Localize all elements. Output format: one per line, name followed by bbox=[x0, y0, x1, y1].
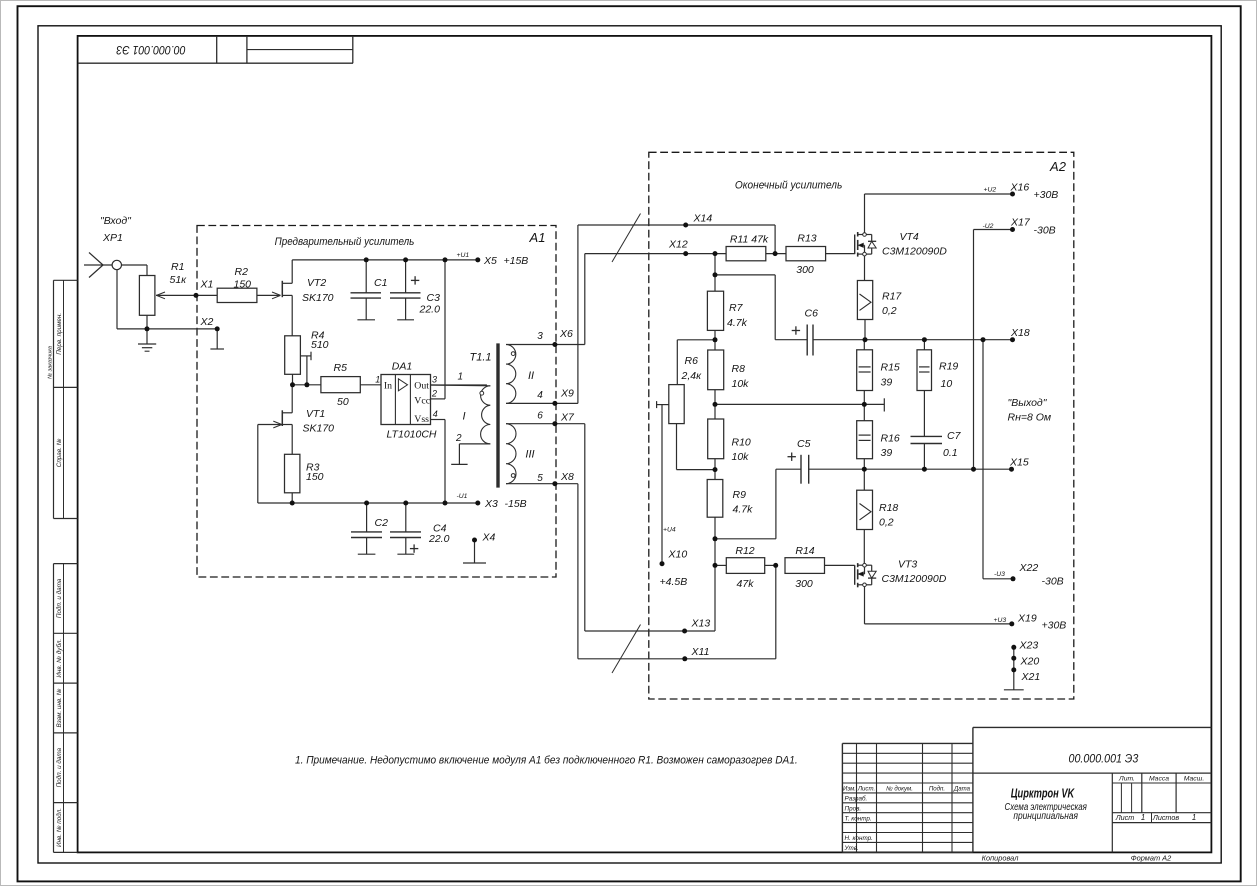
svg-text:+U3: +U3 bbox=[994, 617, 1007, 624]
svg-text:22.0: 22.0 bbox=[419, 304, 441, 316]
svg-text:II: II bbox=[528, 370, 534, 382]
svg-text:DA1: DA1 bbox=[392, 361, 412, 373]
svg-text:Vcc: Vcc bbox=[414, 396, 430, 407]
svg-text:510: 510 bbox=[311, 339, 329, 351]
svg-text:C7: C7 bbox=[947, 430, 962, 442]
svg-text:VT2: VT2 bbox=[307, 277, 326, 289]
svg-text:39: 39 bbox=[881, 447, 893, 459]
svg-text:Разраб.: Разраб. bbox=[845, 795, 868, 803]
svg-text:Подп.: Подп. bbox=[929, 786, 945, 793]
svg-text:300: 300 bbox=[796, 264, 814, 276]
svg-text:R9: R9 bbox=[733, 489, 747, 501]
svg-text:Взам. инв. №: Взам. инв. № bbox=[56, 688, 63, 727]
svg-text:X18: X18 bbox=[1010, 327, 1030, 339]
svg-text:+U4: +U4 bbox=[663, 527, 676, 534]
svg-text:XP1: XP1 bbox=[102, 232, 123, 244]
svg-text:X11: X11 bbox=[691, 646, 710, 658]
svg-text:+15В: +15В bbox=[504, 255, 529, 267]
svg-text:R5: R5 bbox=[334, 362, 348, 374]
svg-text:X2: X2 bbox=[200, 316, 214, 328]
svg-text:X13: X13 bbox=[691, 617, 711, 629]
svg-text:1. Примечание. Недопустимо вкл: 1. Примечание. Недопустимо включение мод… bbox=[295, 754, 798, 766]
svg-text:1: 1 bbox=[1141, 813, 1145, 822]
svg-text:Vss: Vss bbox=[414, 414, 429, 425]
svg-text:X20: X20 bbox=[1020, 656, 1040, 668]
svg-text:+30В: +30В bbox=[1034, 189, 1059, 201]
svg-text:X16: X16 bbox=[1010, 181, 1030, 193]
svg-text:Пров.: Пров. bbox=[845, 805, 862, 812]
svg-text:SK170: SK170 bbox=[302, 292, 334, 304]
svg-text:"Вход": "Вход" bbox=[100, 215, 132, 227]
svg-text:R2: R2 bbox=[235, 266, 249, 278]
svg-text:Подп. и дата: Подп. и дата bbox=[55, 578, 63, 618]
svg-text:In: In bbox=[384, 381, 392, 392]
svg-text:R12: R12 bbox=[735, 545, 754, 557]
svg-text:T1.1: T1.1 bbox=[469, 352, 491, 364]
svg-text:Листов: Листов bbox=[1152, 813, 1179, 822]
svg-text:22.0: 22.0 bbox=[428, 533, 450, 545]
svg-text:+U2: +U2 bbox=[984, 186, 997, 193]
svg-text:Т. контр.: Т. контр. bbox=[845, 815, 872, 822]
svg-text:Копировал: Копировал bbox=[982, 853, 1020, 862]
svg-text:3: 3 bbox=[537, 331, 543, 342]
svg-text:Перв. примен.: Перв. примен. bbox=[56, 313, 63, 355]
svg-text:A1: A1 bbox=[529, 230, 546, 245]
svg-text:-30В: -30В bbox=[1034, 225, 1056, 237]
svg-text:VT1: VT1 bbox=[306, 408, 325, 420]
svg-text:R19: R19 bbox=[939, 361, 958, 373]
svg-text:VT4: VT4 bbox=[900, 231, 919, 243]
svg-text:Масса: Масса bbox=[1149, 776, 1169, 783]
svg-text:Out: Out bbox=[414, 381, 429, 392]
svg-text:Цирктрон VK: Цирктрон VK bbox=[1011, 786, 1076, 801]
svg-text:X15: X15 bbox=[1009, 456, 1029, 468]
svg-text:4: 4 bbox=[433, 409, 438, 419]
svg-text:X23: X23 bbox=[1019, 640, 1039, 652]
svg-text:X9: X9 bbox=[560, 387, 574, 399]
svg-text:X10: X10 bbox=[668, 549, 688, 561]
svg-text:R6: R6 bbox=[685, 355, 699, 367]
svg-text:X14: X14 bbox=[693, 213, 713, 225]
svg-text:150: 150 bbox=[306, 471, 324, 483]
svg-text:R16: R16 bbox=[881, 433, 900, 445]
svg-text:X7: X7 bbox=[560, 412, 575, 424]
svg-text:I: I bbox=[462, 411, 465, 423]
svg-text:X21: X21 bbox=[1021, 671, 1041, 683]
svg-text:X22: X22 bbox=[1019, 562, 1039, 574]
svg-text:150: 150 bbox=[234, 279, 252, 291]
svg-text:Лист.: Лист. bbox=[857, 786, 875, 793]
svg-text:C3M120090D: C3M120090D bbox=[882, 246, 947, 258]
svg-text:№ заказчика: № заказчика bbox=[47, 346, 53, 379]
svg-text:R13: R13 bbox=[797, 233, 816, 245]
svg-text:Н. контр.: Н. контр. bbox=[845, 835, 873, 842]
svg-text:3: 3 bbox=[432, 375, 437, 385]
svg-text:C6: C6 bbox=[805, 308, 819, 320]
svg-text:R11 47k: R11 47k bbox=[730, 233, 769, 245]
svg-text:00.000.001 Э3: 00.000.001 Э3 bbox=[116, 43, 185, 57]
svg-text:4.7k: 4.7k bbox=[733, 504, 754, 516]
svg-text:-30В: -30В bbox=[1042, 576, 1064, 588]
svg-text:Инв. № подл.: Инв. № подл. bbox=[55, 808, 63, 847]
svg-text:R8: R8 bbox=[732, 363, 746, 375]
svg-text:0.1: 0.1 bbox=[943, 447, 958, 459]
svg-text:X17: X17 bbox=[1010, 216, 1031, 228]
svg-text:+U1: +U1 bbox=[457, 252, 470, 259]
svg-text:2: 2 bbox=[431, 389, 437, 399]
svg-text:5: 5 bbox=[537, 473, 543, 484]
svg-text:-U2: -U2 bbox=[983, 223, 994, 230]
svg-text:Утв.: Утв. bbox=[844, 845, 859, 852]
svg-text:Предварительный усилитель: Предварительный усилитель bbox=[275, 236, 415, 248]
svg-text:C1: C1 bbox=[374, 277, 387, 289]
svg-text:+30В: +30В bbox=[1042, 620, 1067, 632]
svg-text:"Выход": "Выход" bbox=[1008, 397, 1048, 409]
svg-text:принципиальная: принципиальная bbox=[1013, 811, 1078, 822]
svg-text:C5: C5 bbox=[797, 438, 811, 450]
svg-text:-U3: -U3 bbox=[994, 571, 1005, 578]
svg-text:R15: R15 bbox=[881, 362, 900, 374]
svg-text:X4: X4 bbox=[482, 531, 496, 543]
svg-text:39: 39 bbox=[881, 376, 893, 388]
svg-text:R18: R18 bbox=[879, 502, 898, 514]
svg-text:0,2: 0,2 bbox=[879, 517, 894, 529]
svg-text:-15В: -15В bbox=[505, 498, 527, 510]
svg-text:Изм.: Изм. bbox=[843, 786, 856, 793]
svg-text:Дата: Дата bbox=[953, 786, 971, 793]
svg-text:C2: C2 bbox=[375, 517, 389, 529]
svg-text:LT1010CH: LT1010CH bbox=[387, 428, 437, 440]
svg-text:R1: R1 bbox=[171, 261, 184, 273]
svg-text:R14: R14 bbox=[795, 545, 814, 557]
svg-text:10k: 10k bbox=[732, 451, 750, 463]
svg-text:50: 50 bbox=[337, 396, 349, 408]
svg-text:Rн=8 Ом: Rн=8 Ом bbox=[1008, 412, 1052, 424]
svg-text:Оконечный усилитель: Оконечный усилитель bbox=[735, 180, 843, 192]
svg-text:Лит.: Лит. bbox=[1118, 776, 1135, 783]
svg-text:+4.5В: +4.5В bbox=[660, 576, 688, 588]
svg-text:2,4к: 2,4к bbox=[681, 370, 703, 382]
svg-text:300: 300 bbox=[795, 578, 813, 590]
svg-text:6: 6 bbox=[537, 410, 543, 421]
svg-text:1: 1 bbox=[1192, 813, 1196, 822]
svg-text:Справ. №: Справ. № bbox=[56, 438, 63, 467]
svg-text:1: 1 bbox=[458, 372, 464, 383]
svg-text:C3: C3 bbox=[427, 292, 441, 304]
svg-text:№ докум.: № докум. bbox=[886, 786, 913, 793]
svg-text:1: 1 bbox=[375, 375, 380, 385]
svg-text:R10: R10 bbox=[732, 436, 751, 448]
svg-text:-U1: -U1 bbox=[457, 493, 468, 500]
svg-text:A2: A2 bbox=[1049, 159, 1067, 174]
svg-text:SK170: SK170 bbox=[303, 422, 335, 434]
svg-text:R17: R17 bbox=[882, 291, 902, 303]
svg-text:X3: X3 bbox=[484, 498, 498, 510]
svg-text:51к: 51к bbox=[170, 274, 188, 286]
svg-text:R7: R7 bbox=[729, 302, 744, 314]
svg-text:10k: 10k bbox=[732, 378, 750, 390]
svg-text:X8: X8 bbox=[560, 471, 574, 483]
svg-text:0,2: 0,2 bbox=[882, 305, 897, 317]
svg-text:X6: X6 bbox=[559, 328, 573, 340]
svg-text:00.000.001 Э3: 00.000.001 Э3 bbox=[1069, 752, 1139, 766]
svg-text:VT3: VT3 bbox=[898, 559, 917, 571]
svg-text:Лист: Лист bbox=[1115, 813, 1135, 822]
svg-text:X1: X1 bbox=[200, 279, 214, 291]
svg-text:47k: 47k bbox=[737, 578, 755, 590]
svg-text:2: 2 bbox=[455, 433, 462, 444]
svg-text:X12: X12 bbox=[668, 239, 688, 251]
svg-text:III: III bbox=[525, 449, 534, 461]
svg-text:4: 4 bbox=[537, 390, 543, 401]
svg-text:X5: X5 bbox=[483, 255, 497, 267]
svg-text:10: 10 bbox=[941, 378, 953, 390]
svg-text:4.7k: 4.7k bbox=[727, 317, 748, 329]
svg-text:Инв. № дубл.: Инв. № дубл. bbox=[55, 639, 63, 678]
svg-text:Подп. и дата: Подп. и дата bbox=[55, 747, 63, 787]
svg-text:C3M120090D: C3M120090D bbox=[882, 573, 947, 585]
svg-text:Формат А2: Формат А2 bbox=[1131, 853, 1171, 862]
svg-text:Масш.: Масш. bbox=[1184, 776, 1205, 783]
svg-text:X19: X19 bbox=[1017, 612, 1037, 624]
